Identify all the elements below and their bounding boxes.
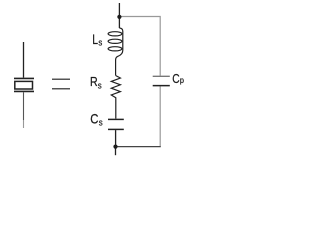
svg-text:C: C	[90, 112, 98, 127]
svg-text:p: p	[180, 75, 185, 85]
svg-text:C: C	[172, 73, 179, 86]
svg-text:L: L	[92, 32, 98, 48]
svg-text:s: s	[98, 37, 102, 48]
svg-text:s: s	[99, 117, 103, 128]
svg-text:R: R	[90, 74, 98, 89]
svg-text:s: s	[98, 80, 102, 91]
